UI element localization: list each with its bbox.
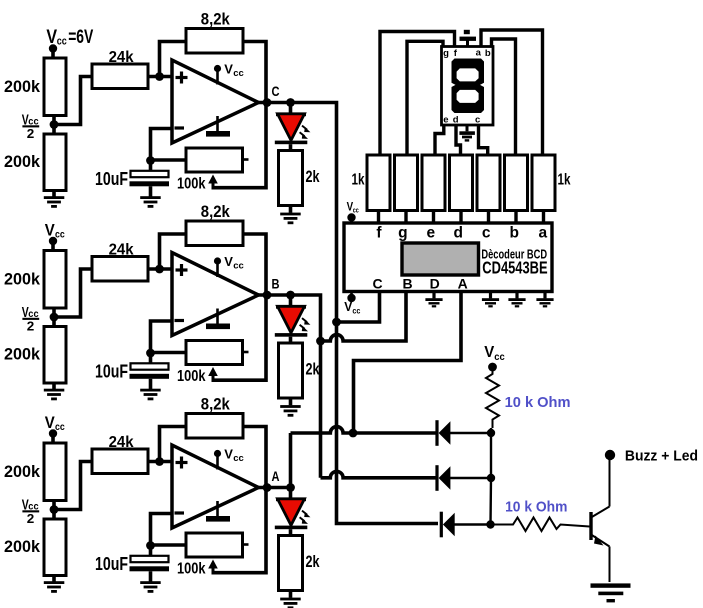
LED light arrows stage B [300,318,311,331]
svg-text:24k: 24k [109,434,134,451]
capacitor 10uF stage C [130,160,170,197]
wire -input down [151,321,173,353]
wire display pin a loop [481,30,543,156]
svg-text:A: A [458,276,468,292]
resistor 1k segment g [395,155,418,211]
svg-text:2k: 2k [306,361,321,379]
Vcc supply node stage B [49,237,57,245]
svg-text:d: d [453,115,459,126]
svg-text:200k: 200k [4,538,41,556]
wire 1k c to decoder [487,211,490,224]
decoder Vcc pin top [347,213,355,223]
resistor 1k segment d [450,155,473,211]
wire diode 2 to bus [450,477,491,479]
ground 2k stage C [280,213,301,225]
decoder Vcc pin bottom [347,292,355,303]
op-amp comparator stage A [172,445,259,528]
Vcc supply label stage A [45,414,65,433]
pot wiper arrow stage B [208,367,218,382]
op-amp + input marker [176,72,188,84]
ground divider stage C [44,196,65,208]
wire 8.2k right to output node [243,427,266,488]
svg-text:e: e [443,115,448,126]
node -input stage B [146,349,155,358]
capacitor 10uF stage B [130,353,170,390]
capacitor 10uF stage A [130,545,170,582]
op-amp V- ground pin stage A [206,501,230,522]
node C bus / decoder C [332,318,341,327]
node output B [263,291,272,300]
wire wiper feedback to output [213,295,266,380]
resistor 1k segment a [532,155,555,211]
resistor 1k segment f [367,155,390,211]
wire wiper feedback to output [213,103,266,188]
pot right stub [243,543,249,546]
op-amp - input marker [175,511,185,514]
wire display pin b loop [492,39,516,156]
node diode bus top [487,429,495,437]
diode D2 (B line) [435,465,450,491]
wire 24k to +input [148,75,172,79]
svg-text:24k: 24k [109,242,134,259]
potentiometer 100k stage A [186,533,243,557]
decoder inner gray block [402,243,479,275]
node +input stage A [155,457,164,466]
resistor 1k segment e [422,155,445,211]
svg-text:200k: 200k [4,271,41,289]
wire diode bus vertical [489,428,492,525]
wire op-amp output [256,486,292,490]
svg-text:g: g [443,48,449,59]
ground capacitor stage A [140,581,161,593]
op-amp V+ pin stage A [214,447,244,470]
resistor 200k upper stage C [44,58,66,116]
Vcc label pull-up [484,344,505,363]
wire 8.2k right to output node [243,234,266,295]
display pin labels e d c [443,115,480,126]
svg-text:cc: cc [233,453,244,464]
resistor 1k segment c [477,155,500,211]
resistor 24k stage A [92,449,148,474]
display bottom common ground [459,125,475,142]
wire op-amp output [256,293,292,297]
svg-text:cc: cc [353,205,359,214]
node diode bus middle [487,474,495,482]
wire 1k a to decoder [542,211,545,224]
node +input stage B [155,265,164,274]
svg-text:c: c [482,225,491,242]
Vcc supply node stage A [49,429,57,437]
op-amp V- ground pin stage C [206,116,230,137]
resistor 8.2k feedback stage A [186,414,243,439]
wire R2 to ground [52,576,56,582]
wire -input node to 100k [151,351,187,355]
svg-text:8,2k: 8,2k [201,10,231,28]
LED red stage B [275,295,308,344]
svg-text:C: C [373,276,383,292]
wire display pin c down [479,125,488,156]
node Vcc/2 stage C [50,120,59,129]
svg-text:10 k Ohm: 10 k Ohm [505,499,567,516]
node LED tap B [286,291,295,300]
wire 24k to +input [148,460,172,464]
svg-text:a: a [538,225,547,242]
wire bus C output to diode 3 [291,103,439,524]
pot right stub [243,158,249,161]
wire 1k f to decoder [377,211,380,224]
node +input stage C [155,72,164,81]
resistor 8.2k feedback stage C [186,29,243,54]
wire Vcc/2 node to 24k [54,77,93,125]
ground decoder 3 [536,292,553,308]
Vcc pull-up node [488,363,497,372]
wire -input down [151,514,173,546]
svg-text:V: V [484,344,494,361]
resistor 200k upper stage A [44,443,66,501]
svg-text:cc: cc [57,36,67,48]
potentiometer 100k stage C [186,148,243,172]
node LED tap A [286,483,295,492]
LED red stage C [275,103,308,152]
node Vcc/2 stage B [50,313,59,322]
svg-text:A: A [272,469,280,484]
node Vcc/2 stage A [50,505,59,514]
svg-text:1k: 1k [558,172,571,189]
svg-text:100k: 100k [177,368,206,385]
wire display pin f loop [380,32,455,157]
decoder Vcc label bottom [344,299,360,315]
resistor 10k base [491,518,590,532]
svg-text:cc: cc [494,351,505,363]
node output A [263,483,272,492]
wire R2 to ground [52,383,56,389]
decoder Vcc label top [347,202,359,215]
wire display pin e down [435,125,444,156]
pot right stub [243,351,249,354]
wire decoder pin B to B bus with hop over C bus [323,292,407,342]
svg-text:2k: 2k [306,553,321,571]
svg-text:10 k Ohm: 10 k Ohm [505,394,571,411]
svg-text:d: d [453,225,462,242]
wire Vcc to R1 [51,241,55,252]
wire R1 to R2 [52,116,56,135]
svg-text:=6V: =6V [68,27,93,48]
resistor 200k lower stage C [44,134,66,191]
wire Vcc/2 node to 24k [54,462,93,510]
wire decoder pin A down to A line [354,292,462,431]
svg-text:10uF: 10uF [95,169,128,189]
wire A line to diode 1 with hop over C bus [291,427,437,433]
op-amp + input marker [176,264,188,276]
wire -input down [151,129,173,161]
7-segment display body [442,47,494,126]
potentiometer 100k stage B [186,341,243,365]
op-amp - input marker [175,319,185,322]
node -input stage A [146,541,155,550]
svg-text:200k: 200k [4,463,41,481]
wire diode 3 to bus [455,523,491,525]
node label Vcc/2 stage C [22,112,39,142]
node -input stage C [146,156,155,165]
wire op-amp output [256,101,292,105]
resistor 200k lower stage A [44,519,66,576]
display pin labels g f a b [443,48,491,59]
svg-text:cc: cc [352,305,360,315]
wire R1 to R2 [52,308,56,327]
7-segment digit 8 [452,59,485,114]
node A line / decoder A [349,429,358,438]
wire 1k g to decoder [404,211,407,224]
wire Vcc to R1 [51,434,55,445]
wire +input to 8.2k left [160,427,187,462]
svg-text:V: V [224,447,233,462]
svg-text:100k: 100k [177,176,206,193]
op-amp V+ pin stage B [214,254,244,277]
resistor 2k stage A [279,536,303,591]
svg-text:V: V [45,414,55,432]
svg-text:C: C [272,84,280,99]
Vcc=6V supply label stage C [46,27,93,48]
svg-text:b: b [509,225,518,242]
wire -input node to 100k [151,158,187,162]
resistor 24k stage C [92,64,148,89]
svg-text:10uF: 10uF [95,362,128,382]
svg-text:200k: 200k [4,153,41,171]
resistor 2k stage C [279,151,303,206]
node LED tap C [286,98,295,107]
svg-text:8,2k: 8,2k [201,203,231,221]
svg-text:b: b [485,48,491,59]
svg-text:200k: 200k [4,78,41,96]
ground decoder pin D [425,292,442,308]
wire 2k to ground [289,206,293,213]
svg-text:B: B [402,276,412,292]
svg-text:24k: 24k [109,49,134,66]
svg-text:200k: 200k [4,345,41,363]
resistor 200k lower stage B [44,327,66,384]
wire -input node to 100k [151,543,187,547]
svg-text:B: B [272,277,280,292]
ground capacitor stage B [140,389,161,401]
svg-text:e: e [426,225,435,242]
op-amp comparator stage C [172,60,259,143]
wire 24k to +input [148,267,172,271]
svg-text:D: D [430,276,440,292]
wire +input to 8.2k left [160,42,187,77]
resistor 1k segment b [505,155,528,211]
op-amp - input marker [175,126,185,129]
Vcc supply node stage C [49,44,57,52]
svg-text:g: g [398,225,407,242]
op-amp V+ pin stage C [214,62,244,85]
ground transistor emitter [591,583,631,602]
wire R2 to ground [52,191,56,197]
diode D3 (C line) [440,512,455,538]
ground 2k stage B [280,405,301,417]
wire 1k e to decoder [432,211,435,224]
ground divider stage B [44,389,65,401]
wire 2k to ground [289,591,293,598]
display top common ground [460,30,477,47]
wire +input to 8.2k left [160,234,187,269]
LED light arrows stage A [300,511,311,524]
node label Vcc/2 stage A [22,497,39,527]
pot wiper arrow stage A [208,560,218,575]
svg-text:cc: cc [233,68,244,79]
op-amp comparator stage B [172,253,259,336]
wire wiper feedback to output [213,488,266,573]
IC decoder CD4543BE body [344,223,552,292]
ground decoder 2 [508,292,525,308]
svg-text:2: 2 [27,511,35,526]
wire 1k b to decoder [514,211,517,224]
ground decoder 1 [482,292,499,308]
wire A output up [289,433,293,488]
LED light arrows stage C [300,126,311,139]
svg-text:100k: 100k [177,561,206,578]
resistor 2k stage B [279,343,303,398]
wire decoder pin C to C bus [339,292,380,323]
svg-text:2: 2 [27,319,35,334]
svg-text:V: V [224,62,233,77]
wire 1k d to decoder [459,211,462,224]
wire B line to diode 2 with hop over C bus [321,471,437,477]
op-amp + input marker [176,457,188,469]
svg-text:1k: 1k [352,172,365,189]
svg-text:V: V [45,221,55,239]
resistor 8.2k feedback stage B [186,221,243,246]
Vcc supply label stage B [45,221,65,240]
svg-text:f: f [376,225,382,242]
resistor 10k pull-up [486,367,499,428]
wire bus B output down [291,295,321,478]
LED red stage A [275,488,308,537]
wire 8.2k right to output node [243,42,266,103]
svg-text:2: 2 [27,126,35,141]
svg-text:Buzz + Led: Buzz + Led [625,449,698,465]
resistor 24k stage B [92,257,148,282]
svg-text:2k: 2k [306,168,321,186]
svg-text:8,2k: 8,2k [201,395,231,413]
wire Vcc to R1 [51,49,55,60]
wire R1 to R2 [52,501,56,520]
ground capacitor stage C [140,196,161,208]
svg-text:10uF: 10uF [95,554,128,574]
node label Vcc/2 stage B [22,304,39,334]
pot wiper arrow stage C [208,175,218,190]
svg-text:cc: cc [233,261,244,272]
op-amp V- ground pin stage B [206,309,230,330]
svg-text:V: V [224,254,233,269]
wire diode 1 to bus [450,432,491,434]
wire Vcc/2 node to 24k [54,269,93,317]
Buzz + Led output node [605,450,615,460]
resistor 200k upper stage B [44,251,66,309]
svg-text:a: a [476,48,482,59]
transistor Q1 NPN [591,459,610,582]
wire 2k to ground [289,398,293,405]
diode D1 (A line) [435,420,450,446]
svg-text:V: V [344,299,352,314]
ground 2k stage A [280,598,301,608]
wire display pin g loop [407,41,443,156]
wire display pin d down [456,125,461,156]
node diode bus bottom [486,520,494,528]
svg-text:c: c [475,115,480,126]
svg-text:CD4543BE: CD4543BE [482,258,547,278]
node B bus / decoder B [316,337,325,346]
ground divider stage A [44,581,65,593]
node output C [263,98,272,107]
